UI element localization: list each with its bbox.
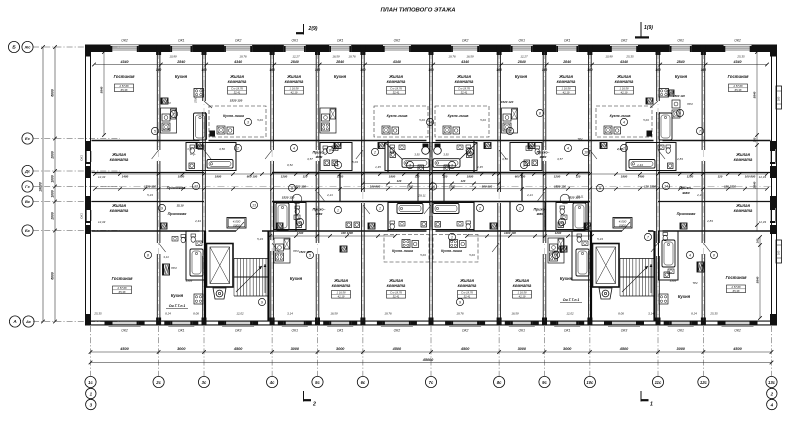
wall pier segment <box>202 45 225 53</box>
washing machine <box>390 152 396 158</box>
svg-text:Ас: Ас <box>25 319 32 324</box>
кухня-ниша dashed niche <box>596 106 652 137</box>
svg-text:А: А <box>12 319 16 324</box>
window ОК1 <box>556 320 578 322</box>
svg-text:Кухня: Кухня <box>175 74 188 79</box>
svg-text:ОК2: ОК2 <box>394 39 401 43</box>
svg-text:Ст 18,76: Ст 18,76 <box>390 87 402 91</box>
wall segment thin <box>429 320 502 322</box>
svg-text:10,99: 10,99 <box>169 55 177 59</box>
axis circle Жс <box>22 41 33 52</box>
bathtub <box>662 240 675 267</box>
svg-text:1: 1 <box>337 208 339 212</box>
middle chain short segment upper-mid <box>363 183 499 185</box>
ventilation shaft <box>528 143 535 149</box>
stove bay2 top <box>194 89 204 98</box>
svg-text:4: 4 <box>770 402 774 407</box>
svg-text:ОК2: ОК2 <box>235 39 242 43</box>
svg-text:2(9): 2(9) <box>308 26 318 32</box>
svg-text:8,06: 8,06 <box>193 312 199 316</box>
elevator door machine <box>599 288 612 299</box>
wall pier segment <box>578 45 592 53</box>
window ОК1 <box>511 320 533 322</box>
svg-text:ПР2: ПР2 <box>687 102 693 106</box>
svg-text:Прихожая: Прихожая <box>168 212 188 216</box>
elevator shaft <box>593 244 620 288</box>
partition wall axis 7с <box>429 52 431 150</box>
svg-text:9: 9 <box>291 186 293 190</box>
svg-text:1900: 1900 <box>389 174 396 178</box>
svg-text:4340: 4340 <box>619 60 628 64</box>
wall pier segment <box>429 45 452 53</box>
window jamb piers <box>718 321 724 326</box>
svg-text:ОК3: ОК3 <box>235 329 242 333</box>
svg-text:1520 120: 1520 120 <box>230 99 243 103</box>
window ОК2 <box>111 46 139 48</box>
room area box <box>513 291 532 299</box>
toilet <box>535 146 540 149</box>
fridge <box>330 109 336 119</box>
svg-text:2: 2 <box>770 391 774 396</box>
window sill line <box>509 326 535 328</box>
sink basin <box>561 215 567 220</box>
left dimension chain rows <box>54 47 56 322</box>
room area box <box>727 285 746 293</box>
svg-text:160: 160 <box>756 238 760 243</box>
svg-text:1480: 1480 <box>122 174 129 178</box>
left exterior wall double line <box>85 45 87 326</box>
svg-text:4с: 4с <box>269 380 275 385</box>
sink basin <box>172 237 178 242</box>
svg-text:ОК2: ОК2 <box>462 39 469 43</box>
middle dimension chain lower <box>95 188 767 190</box>
svg-text:ОК1: ОК1 <box>337 329 344 333</box>
svg-text:12,02: 12,02 <box>236 312 244 316</box>
axis circle Вс <box>22 196 33 207</box>
top wall outer face line <box>86 44 776 46</box>
svg-text:1 16,58: 1 16,58 <box>620 87 629 91</box>
ventilation shaft <box>196 143 203 149</box>
svg-text:1900: 1900 <box>449 184 456 188</box>
svg-text:2: 2 <box>478 206 481 210</box>
circled reference markers <box>170 110 177 117</box>
axis circle 2 below 13с <box>767 388 777 398</box>
svg-text:2: 2 <box>508 129 511 133</box>
svg-text:2с: 2с <box>155 380 161 385</box>
sink <box>392 127 399 134</box>
window sill line <box>282 326 308 328</box>
lower dimension chain at Бс right part <box>467 235 592 237</box>
axis circle Гс <box>22 181 33 192</box>
svg-text:29,11: 29,11 <box>417 193 426 197</box>
кухня-ниша dashed niche <box>209 106 266 137</box>
svg-text:160: 160 <box>156 68 162 72</box>
horizontal wall along Вс left end <box>92 201 205 203</box>
ventilation shaft <box>160 223 167 229</box>
svg-text:2840: 2840 <box>176 60 185 64</box>
svg-text:19,76: 19,76 <box>239 55 247 59</box>
elevator shaft <box>207 244 234 288</box>
partition wall axis 8с <box>497 52 499 192</box>
window jamb piers <box>445 321 451 326</box>
right inner vertical dimension bay12 lower <box>759 237 761 318</box>
svg-text:32,41: 32,41 <box>393 295 400 299</box>
svg-text:Кухня: Кухня <box>560 276 573 281</box>
window ОК2 <box>383 46 411 48</box>
svg-text:32,41: 32,41 <box>234 91 241 95</box>
ventilation shaft <box>484 143 491 149</box>
svg-text:120 1520: 120 1520 <box>644 184 656 188</box>
section flag 1 bottom <box>640 391 642 402</box>
svg-text:1с: 1с <box>88 380 93 385</box>
svg-text:600 100: 600 100 <box>515 174 526 178</box>
svg-text:1,45: 1,45 <box>375 165 381 169</box>
svg-text:5,04: 5,04 <box>469 253 475 257</box>
svg-text:5840: 5840 <box>753 91 757 98</box>
window ОК2 <box>724 46 752 48</box>
svg-text:ОК1: ОК1 <box>519 39 526 43</box>
svg-text:ПР2: ПР2 <box>293 249 299 253</box>
sink basin <box>457 222 463 227</box>
ventilation shaft <box>163 264 170 275</box>
stove <box>604 126 612 134</box>
axis circle Бс <box>22 225 33 236</box>
svg-text:120: 120 <box>443 174 448 178</box>
partition wall axis 5с <box>315 52 317 150</box>
svg-text:Бс: Бс <box>25 228 31 233</box>
sink basin <box>332 146 338 151</box>
svg-text:ОК2: ОК2 <box>394 329 401 333</box>
svg-text:Кухня–ниша: Кухня–ниша <box>441 249 462 253</box>
wall pier segment <box>542 45 556 53</box>
window ОК2 <box>111 320 139 322</box>
toilet circles at center wall <box>422 147 430 155</box>
svg-text:3,50: 3,50 <box>219 147 225 151</box>
window jamb piers <box>278 321 284 326</box>
svg-text:5: 5 <box>154 129 156 133</box>
svg-text:Гостиная: Гостиная <box>728 74 749 79</box>
svg-text:12,33: 12,33 <box>98 175 106 179</box>
window ОК2 <box>451 320 479 322</box>
svg-text:160: 160 <box>587 68 593 72</box>
svg-text:16: 16 <box>431 185 435 189</box>
axis circle 9с <box>539 376 550 387</box>
svg-text:9: 9 <box>161 206 163 210</box>
wall pier segment <box>479 45 502 53</box>
svg-text:160: 160 <box>777 250 781 255</box>
svg-text:1: 1 <box>523 163 525 167</box>
svg-text:8: 8 <box>147 253 149 257</box>
svg-text:Прихожая: Прихожая <box>167 186 187 190</box>
middle dimension chain upper <box>95 173 767 175</box>
washing machine <box>332 160 338 166</box>
sink basin <box>526 146 532 151</box>
stove <box>402 240 410 248</box>
kitchen counter <box>548 238 564 263</box>
ventilation shaft <box>490 223 497 229</box>
svg-text:160: 160 <box>542 68 548 72</box>
svg-text:8,24: 8,24 <box>165 312 171 316</box>
stairwell entry door right <box>622 222 630 231</box>
corridor door arc circles <box>560 194 570 204</box>
svg-text:4340: 4340 <box>733 60 742 64</box>
lower dimension chain at Бс left part <box>270 235 395 237</box>
svg-text:5,04: 5,04 <box>352 160 358 164</box>
svg-text:1: 1 <box>379 206 381 210</box>
window jamb piers <box>164 321 170 326</box>
toilet <box>181 235 186 238</box>
svg-text:9: 9 <box>459 300 461 304</box>
room area box <box>228 87 247 95</box>
svg-text:19,76: 19,76 <box>384 312 392 316</box>
bathroom enclosure wall <box>320 143 352 171</box>
svg-text:19,76: 19,76 <box>448 55 456 59</box>
door swing into niche bay10 <box>650 101 658 108</box>
svg-text:3000: 3000 <box>177 347 186 351</box>
svg-text:1900: 1900 <box>621 174 628 178</box>
bathroom enclosure wall <box>186 143 236 171</box>
stairwell side wall right <box>267 231 269 321</box>
svg-text:120: 120 <box>303 174 308 178</box>
stove bay2 bottom kitchen <box>194 294 203 304</box>
svg-text:65,38: 65,38 <box>735 88 742 92</box>
washing machine <box>421 222 427 228</box>
svg-text:1200: 1200 <box>555 231 562 235</box>
washing machine <box>354 222 360 228</box>
stair flight treads <box>233 259 235 297</box>
section flag 1(9) top <box>640 22 642 38</box>
wall pier segment <box>270 45 284 53</box>
svg-text:2: 2 <box>468 150 471 154</box>
svg-text:4340: 4340 <box>460 60 469 64</box>
svg-text:2,44: 2,44 <box>194 219 201 223</box>
svg-text:9: 9 <box>599 186 601 190</box>
ventilation shaft <box>646 98 653 104</box>
svg-text:5,23: 5,23 <box>257 237 263 241</box>
svg-text:3000: 3000 <box>676 347 685 351</box>
svg-text:1 16,58: 1 16,58 <box>290 87 299 91</box>
wall pier segment <box>411 45 434 53</box>
svg-text:ПР2: ПР2 <box>171 266 177 270</box>
svg-text:3,57: 3,57 <box>307 157 313 161</box>
svg-text:Ст 18,76: Ст 18,76 <box>461 291 473 295</box>
wall segment thin <box>542 320 592 322</box>
svg-text:1 16,58: 1 16,58 <box>337 291 346 295</box>
svg-text:12,33: 12,33 <box>759 175 767 179</box>
room area box <box>455 87 474 95</box>
svg-text:2840: 2840 <box>335 60 344 64</box>
wall pier segment <box>86 45 111 53</box>
svg-text:2: 2 <box>312 402 316 408</box>
svg-text:1520 120: 1520 120 <box>144 184 156 188</box>
right wall window upper <box>770 151 772 162</box>
svg-text:3: 3 <box>451 163 453 167</box>
wall segment thin <box>361 320 434 322</box>
svg-text:2: 2 <box>298 220 301 224</box>
svg-text:Кухня: Кухня <box>334 74 347 79</box>
toilet <box>295 206 300 209</box>
horizontal wall along Вс middle <box>272 201 590 203</box>
axis circle 2с <box>153 376 164 387</box>
left inner vertical dimension bay1 <box>103 52 105 135</box>
svg-text:4500: 4500 <box>233 347 243 351</box>
svg-text:4500: 4500 <box>119 347 129 351</box>
window ОК1 <box>511 46 533 48</box>
svg-text:10с: 10с <box>586 380 594 385</box>
svg-text:2,21: 2,21 <box>696 193 703 197</box>
svg-text:ОК1: ОК1 <box>519 329 526 333</box>
svg-text:2000: 2000 <box>51 151 55 160</box>
svg-text:3,50: 3,50 <box>502 157 508 161</box>
additional partition segments central <box>387 141 389 173</box>
svg-text:2,83: 2,83 <box>676 157 683 161</box>
toilet <box>390 145 395 148</box>
axis circle Ас <box>23 316 34 327</box>
kitchen counter <box>274 238 290 263</box>
svg-text:32,41: 32,41 <box>393 91 400 95</box>
svg-text:4340: 4340 <box>120 60 129 64</box>
partition wall axis 2с <box>156 52 158 150</box>
svg-text:2 57,68: 2 57,68 <box>733 84 743 88</box>
svg-text:3: 3 <box>555 253 557 257</box>
window ОК2 <box>724 320 752 322</box>
svg-text:1: 1 <box>337 163 339 167</box>
svg-text:1900: 1900 <box>467 174 474 178</box>
window sill line <box>381 326 413 328</box>
bathroom enclosure wall <box>626 143 676 171</box>
svg-text:2: 2 <box>560 220 563 224</box>
stair direction arrow <box>236 266 262 292</box>
svg-text:12,33: 12,33 <box>759 220 767 224</box>
ventilation shaft <box>697 262 704 272</box>
svg-text:Ес: Ес <box>25 136 31 141</box>
svg-text:ОК1: ОК1 <box>80 155 84 161</box>
svg-text:8,06: 8,06 <box>618 312 624 316</box>
svg-text:2: 2 <box>373 150 376 154</box>
svg-text:1000: 1000 <box>51 175 55 183</box>
svg-text:100 800: 100 800 <box>745 174 756 178</box>
kitchen units bay11 <box>672 100 680 108</box>
svg-text:25,35: 25,35 <box>709 312 718 316</box>
kitchen sink <box>322 114 330 121</box>
svg-text:жая: жая <box>681 191 690 195</box>
left wall pier blocks <box>85 45 91 57</box>
svg-text:1: 1 <box>451 235 453 239</box>
svg-text:Жс: Жс <box>24 45 32 50</box>
window sill line <box>109 326 141 328</box>
ventilation shaft <box>276 223 283 229</box>
window ОК2 <box>451 46 479 48</box>
stove <box>382 126 390 134</box>
axis circle Дс <box>22 165 33 176</box>
wall segment thin <box>588 320 661 322</box>
svg-text:ОК1: ОК1 <box>677 39 684 43</box>
svg-text:7: 7 <box>699 129 701 133</box>
bathroom enclosure wall <box>432 143 477 171</box>
wall segment thin <box>88 320 161 322</box>
kitchen counter <box>502 108 518 133</box>
svg-text:ОК1: ОК1 <box>178 39 185 43</box>
wall pier segment <box>351 45 365 53</box>
svg-text:ТР2: ТР2 <box>692 281 698 285</box>
sink basin <box>399 222 405 227</box>
svg-text:160: 160 <box>315 68 321 72</box>
bottom axis dash lines <box>90 326 92 376</box>
ventilation shaft <box>340 246 347 252</box>
svg-text:120: 120 <box>461 179 466 183</box>
svg-text:4340: 4340 <box>233 60 242 64</box>
toilet <box>466 221 471 224</box>
svg-text:7: 7 <box>173 112 175 116</box>
svg-text:1: 1 <box>650 402 653 408</box>
horizontal wall along Дс right end <box>658 172 771 174</box>
bathtub <box>576 249 589 276</box>
window sill line <box>668 326 694 328</box>
svg-text:1200: 1200 <box>687 174 694 178</box>
svg-text:1,43: 1,43 <box>637 163 643 167</box>
toilet <box>323 146 328 149</box>
ventilation shaft <box>368 223 375 229</box>
svg-text:12,27: 12,27 <box>520 55 528 59</box>
svg-text:2 57,68: 2 57,68 <box>731 285 741 289</box>
sink <box>614 127 621 134</box>
svg-text:Кухня–ниша: Кухня–ниша <box>387 114 408 118</box>
svg-text:См.Т.Т.п.1: См.Т.Т.п.1 <box>563 298 580 302</box>
svg-text:2840: 2840 <box>562 60 571 64</box>
window ОК2 <box>610 46 638 48</box>
bathtub <box>659 113 672 140</box>
svg-text:4340: 4340 <box>392 60 401 64</box>
svg-text:160: 160 <box>360 68 366 72</box>
corridor axis dash line Гс <box>92 186 771 188</box>
svg-text:120: 120 <box>397 179 402 183</box>
svg-text:3000: 3000 <box>336 347 345 351</box>
svg-text:Кухня: Кухня <box>675 74 688 79</box>
svg-text:С.у.: С.у. <box>190 152 196 156</box>
svg-text:Вс: Вс <box>25 199 31 204</box>
sink basin <box>399 145 405 150</box>
svg-text:16,59: 16,59 <box>332 55 340 59</box>
svg-text:Кухня: Кухня <box>290 276 303 281</box>
horizontal wall along Вс right end <box>658 201 771 203</box>
svg-text:ОК2: ОК2 <box>734 329 741 333</box>
horizontal wall along Бс <box>92 230 200 232</box>
svg-text:0000: 0000 <box>619 224 626 228</box>
door swings <box>152 150 159 159</box>
fridge <box>171 109 177 119</box>
window ОК1 <box>284 46 306 48</box>
svg-text:3,50: 3,50 <box>443 153 449 157</box>
svg-text:800 100: 800 100 <box>247 174 258 178</box>
bathroom enclosure wall <box>510 143 542 171</box>
svg-text:3000: 3000 <box>291 347 300 351</box>
axis circle 13с <box>766 376 777 387</box>
diagonal bathroom wall right <box>460 143 477 160</box>
svg-text:1520 120: 1520 120 <box>554 184 566 188</box>
window jamb piers <box>323 321 329 326</box>
axis circle 10с <box>584 376 595 387</box>
window sill line <box>722 326 754 328</box>
svg-text:18000: 18000 <box>39 182 43 192</box>
svg-text:19,76: 19,76 <box>456 312 464 316</box>
svg-text:1200: 1200 <box>297 231 304 235</box>
right outside pilaster lower <box>776 240 782 263</box>
svg-text:1200: 1200 <box>554 174 561 178</box>
svg-text:11с: 11с <box>655 380 662 385</box>
svg-text:16,59: 16,59 <box>511 312 519 316</box>
stove <box>162 123 170 131</box>
svg-text:Кухня–ниша: Кухня–ниша <box>448 114 469 118</box>
